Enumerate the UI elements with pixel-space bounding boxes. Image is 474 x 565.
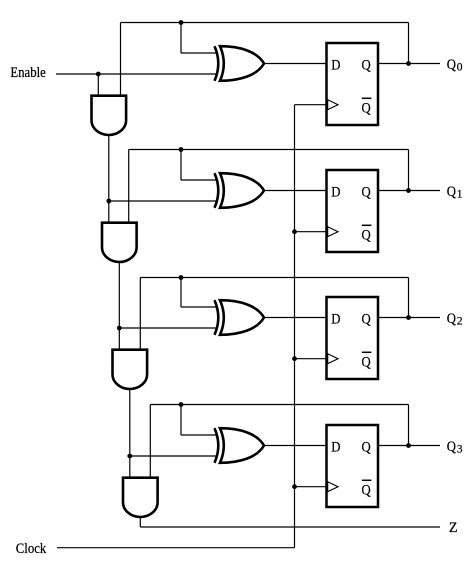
svg-text:Q: Q [362, 58, 371, 74]
svg-text:D: D [331, 185, 340, 201]
svg-text:Q: Q [447, 57, 456, 73]
svg-text:Q: Q [362, 312, 371, 328]
svg-text:1: 1 [457, 188, 463, 201]
svg-text:Q: Q [362, 354, 371, 370]
svg-text:Enable: Enable [10, 65, 45, 81]
svg-text:Q: Q [362, 227, 371, 243]
svg-text:0: 0 [457, 61, 463, 74]
svg-text:D: D [331, 58, 340, 74]
svg-text:Q: Q [362, 482, 371, 498]
svg-text:Clock: Clock [16, 541, 46, 557]
svg-text:3: 3 [457, 443, 463, 456]
svg-text:D: D [331, 312, 340, 328]
svg-text:Q: Q [447, 184, 456, 200]
svg-text:D: D [331, 440, 340, 456]
svg-text:Q: Q [447, 439, 456, 455]
svg-text:Z: Z [449, 519, 458, 535]
svg-text:Q: Q [362, 440, 371, 456]
svg-text:Q: Q [447, 311, 456, 327]
svg-text:Q: Q [362, 185, 371, 201]
svg-text:Q: Q [362, 100, 371, 116]
svg-text:2: 2 [457, 315, 463, 328]
